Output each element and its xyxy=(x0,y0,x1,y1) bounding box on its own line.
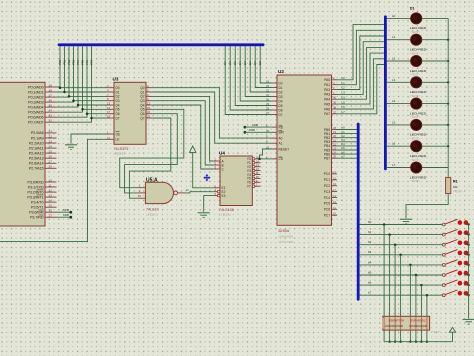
svg-text:U3: U3 xyxy=(113,77,119,82)
wire U5:A output pin12 to U4 E2 xyxy=(185,188,214,193)
svg-text:VCC=VDD: VCC=VDD xyxy=(279,240,295,244)
svg-text:16: 16 xyxy=(49,209,53,213)
wire Q5 to U5:A pin1 xyxy=(120,109,184,187)
svg-text:PC3: PC3 xyxy=(324,190,330,194)
push button row b3 xyxy=(360,250,470,257)
svg-text:39: 39 xyxy=(49,83,53,87)
svg-text:PC4: PC4 xyxy=(324,196,330,200)
svg-text:18: 18 xyxy=(107,115,111,119)
svg-text:L7: L7 xyxy=(342,110,346,114)
U1 port P3 pins xyxy=(27,178,56,219)
svg-text:L0: L0 xyxy=(392,14,396,18)
wires P0.0-P0.7 to U3 D0-D7 xyxy=(57,87,107,122)
svg-text:Q1: Q1 xyxy=(140,90,144,94)
wire U2 RESET to node xyxy=(258,149,272,160)
svg-text:L2: L2 xyxy=(342,86,346,90)
svg-text:33: 33 xyxy=(266,84,270,88)
push button row b2 xyxy=(360,240,470,247)
svg-text:D2: D2 xyxy=(248,61,252,65)
svg-text:14: 14 xyxy=(333,170,337,174)
wire Q1 to U2 A1 xyxy=(152,92,271,143)
svg-text:38: 38 xyxy=(49,88,53,92)
resistor R1 xyxy=(446,178,464,194)
svg-text:17: 17 xyxy=(333,188,337,192)
svg-text:13: 13 xyxy=(138,194,142,198)
svg-text:26: 26 xyxy=(49,155,53,159)
wire Q0 to U2 A0 xyxy=(152,88,271,138)
svg-text:D3: D3 xyxy=(243,61,247,65)
push button row b5 xyxy=(360,270,470,277)
microcontroller U1 body (AT89C51, clipped at left edge) xyxy=(0,82,45,226)
svg-text:LE: LE xyxy=(116,138,120,142)
svg-text:23: 23 xyxy=(49,139,53,143)
svg-text:L4: L4 xyxy=(342,95,346,99)
svg-text:16: 16 xyxy=(333,182,337,186)
svg-text:11: 11 xyxy=(333,206,336,210)
svg-text:15: 15 xyxy=(49,204,53,208)
pull-up wire b5 to resistor pack xyxy=(415,274,418,317)
svg-text:L6: L6 xyxy=(342,105,346,109)
svg-text:<TEXT>: <TEXT> xyxy=(410,179,421,183)
svg-text:36: 36 xyxy=(49,98,53,102)
svg-text:25: 25 xyxy=(49,149,53,153)
svg-text:P07: P07 xyxy=(90,59,94,65)
svg-text:D1: D1 xyxy=(253,61,257,65)
svg-text:32: 32 xyxy=(266,89,270,93)
svg-text:D5: D5 xyxy=(279,104,283,108)
svg-text:19: 19 xyxy=(147,115,151,119)
push button row b7 xyxy=(360,290,470,297)
svg-text:PA4: PA4 xyxy=(324,98,330,102)
svg-text:L5: L5 xyxy=(342,100,346,104)
svg-text:ARD: ARD xyxy=(63,213,69,217)
svg-text:10: 10 xyxy=(49,178,53,182)
wire Q2 to U4 A xyxy=(152,96,214,161)
bus entry labels P00-P07 xyxy=(58,59,94,65)
wire ALE to U3 LE xyxy=(0,139,106,241)
svg-text:PA2: PA2 xyxy=(324,88,330,92)
svg-text:L3: L3 xyxy=(392,78,396,82)
svg-text:D7: D7 xyxy=(279,113,283,117)
pull-up wire b2 to resistor pack xyxy=(394,243,397,316)
LED D3 (LED-RED) xyxy=(387,55,450,76)
svg-text:D5: D5 xyxy=(116,108,120,112)
svg-text:Q7: Q7 xyxy=(140,116,144,120)
svg-text:P03: P03 xyxy=(72,59,76,65)
pull-up wire b1 to resistor pack xyxy=(388,233,391,316)
wire LED cathode rail xyxy=(447,19,449,178)
pull-up wire b3 to resistor pack xyxy=(399,254,402,317)
svg-text:13: 13 xyxy=(49,193,53,197)
svg-text:L1: L1 xyxy=(342,81,346,85)
svg-text:A1: A1 xyxy=(279,142,283,146)
svg-text:D5: D5 xyxy=(233,61,237,65)
svg-text:31: 31 xyxy=(266,93,270,97)
svg-text:P00: P00 xyxy=(58,59,62,65)
svg-text:<TEXT>: <TEXT> xyxy=(219,213,231,217)
svg-text:D7: D7 xyxy=(116,116,120,120)
ground at U4 E3 xyxy=(198,196,214,218)
svg-text:<TEXT>: <TEXT> xyxy=(146,213,158,217)
wire U4 Y0 to U2 CS xyxy=(261,158,272,160)
svg-text:<TEXT>: <TEXT> xyxy=(410,30,421,34)
svg-text:74LS138: 74LS138 xyxy=(219,208,234,212)
svg-text:D0: D0 xyxy=(279,81,283,85)
junction dots on P0 wires xyxy=(59,86,93,119)
svg-text:L0: L0 xyxy=(342,76,346,80)
svg-text:b5: b5 xyxy=(368,270,372,274)
svg-text:PB7: PB7 xyxy=(324,157,330,161)
bus buttons (vertical lower) xyxy=(357,124,360,299)
svg-text:b6: b6 xyxy=(368,281,372,285)
svg-text:P02: P02 xyxy=(67,59,71,65)
svg-text:37: 37 xyxy=(49,93,53,97)
svg-text:<TEXT>: <TEXT> xyxy=(114,152,126,156)
svg-text:<TEXT>: <TEXT> xyxy=(410,94,421,98)
svg-text:14: 14 xyxy=(107,106,111,110)
svg-text:11: 11 xyxy=(49,183,52,187)
svg-text:A0: A0 xyxy=(279,136,283,140)
LED D5 (LED-RED) xyxy=(387,98,450,119)
LED D7 (LED-RED) xyxy=(387,141,450,162)
svg-text:PC7: PC7 xyxy=(324,214,330,218)
svg-text:40: 40 xyxy=(333,96,337,100)
svg-text:R9R8R7R6: R9R8R7R6 xyxy=(389,319,405,323)
svg-text:33: 33 xyxy=(49,114,53,118)
svg-text:b1: b1 xyxy=(368,230,372,234)
svg-text:L1: L1 xyxy=(392,35,396,39)
svg-text:100100100100: 100100100100 xyxy=(385,324,404,328)
svg-text:L3: L3 xyxy=(342,91,346,95)
svg-text:10: 10 xyxy=(333,212,337,216)
svg-text:<TEXT>: <TEXT> xyxy=(410,115,421,119)
svg-text:12: 12 xyxy=(186,188,190,192)
svg-text:39: 39 xyxy=(333,101,337,105)
svg-text:<TEXT>: <TEXT> xyxy=(410,137,421,141)
bus entry labels D0-D7 xyxy=(223,61,262,65)
svg-text:CS: CS xyxy=(279,157,283,161)
svg-text:RESET: RESET xyxy=(279,147,290,151)
resistor pack R2 (RESPACK-8) xyxy=(382,316,441,334)
svg-text:PC6: PC6 xyxy=(324,208,330,212)
svg-text:30: 30 xyxy=(266,98,270,102)
svg-text:P0.7/AD7: P0.7/AD7 xyxy=(28,120,43,125)
svg-text:34: 34 xyxy=(266,80,270,84)
push button row b6 xyxy=(360,280,470,287)
wire Q7 to U5:A pin13 xyxy=(129,118,170,198)
svg-text:P01: P01 xyxy=(63,59,67,65)
svg-text:15: 15 xyxy=(147,106,151,110)
svg-text:12: 12 xyxy=(333,200,337,204)
svg-text:b0: b0 xyxy=(368,220,372,224)
svg-text:37: 37 xyxy=(333,110,337,114)
svg-text:U2: U2 xyxy=(278,69,284,74)
svg-text:17: 17 xyxy=(49,214,53,218)
svg-text:<TEXT>: <TEXT> xyxy=(410,51,421,55)
svg-text:OE: OE xyxy=(116,132,121,136)
svg-text:D1: D1 xyxy=(279,86,283,90)
pull-up wire b6 to resistor pack xyxy=(420,284,423,316)
wire Q4 to U4 C xyxy=(152,105,214,169)
net label wires AWR/ARD at U1 xyxy=(57,208,73,219)
ground at buttons xyxy=(463,319,474,324)
LED D6 (LED-RED) xyxy=(387,119,450,140)
svg-text:21: 21 xyxy=(49,129,53,133)
svg-text:RD: RD xyxy=(279,125,284,129)
svg-text:U5:A: U5:A xyxy=(146,177,158,183)
svg-text:34: 34 xyxy=(49,109,53,113)
wire Q3 to U4 B xyxy=(152,101,214,165)
ground below R1 xyxy=(400,194,448,224)
svg-text:D6: D6 xyxy=(279,108,283,112)
svg-text:P05: P05 xyxy=(81,59,85,65)
pull-up wire b7 to resistor pack xyxy=(426,294,429,316)
svg-text:D3: D3 xyxy=(279,95,283,99)
svg-text:L2: L2 xyxy=(392,57,396,61)
svg-text:<TEXT>: <TEXT> xyxy=(431,330,442,334)
pull-up wire b4 to resistor pack xyxy=(409,264,412,317)
bus LED (vertical right) xyxy=(384,17,387,169)
svg-text:PC5: PC5 xyxy=(324,202,330,206)
resistor pack pins to VCC rail xyxy=(384,330,428,343)
svg-text:b2: b2 xyxy=(368,240,372,244)
svg-text:27: 27 xyxy=(49,160,53,164)
svg-text:35: 35 xyxy=(49,103,53,107)
pull-up wire b0 to resistor pack xyxy=(383,223,386,316)
bus P0 (horizontal top) xyxy=(59,43,263,46)
bus entry drops to U2 D0-D7 xyxy=(225,46,272,114)
svg-text:13: 13 xyxy=(333,194,337,198)
svg-text:D2: D2 xyxy=(279,90,283,94)
ground at U3 OE xyxy=(65,134,106,150)
LED D8 (LED-RED) xyxy=(387,162,449,183)
net label wires ARD/AWR at U2 xyxy=(244,123,272,134)
svg-text:29: 29 xyxy=(266,102,270,106)
wires PA0-PA7 to LED bus with labels L0-L7 xyxy=(337,25,384,114)
svg-text:12: 12 xyxy=(49,188,53,192)
svg-text:38: 38 xyxy=(333,106,337,110)
NAND gate U5:A (74LS10) xyxy=(138,177,185,217)
svg-text:PA3: PA3 xyxy=(324,93,330,97)
svg-text:D1: D1 xyxy=(116,90,120,94)
svg-text:D7: D7 xyxy=(223,61,227,65)
origin marker (blue cross) xyxy=(203,174,210,182)
svg-text:PC1: PC1 xyxy=(324,178,330,182)
power symbol to U4 E1 xyxy=(190,146,214,188)
svg-text:28: 28 xyxy=(266,107,270,111)
svg-text:PA7: PA7 xyxy=(324,112,330,116)
svg-text:GND=VSS: GND=VSS xyxy=(279,235,294,239)
svg-text:15: 15 xyxy=(333,176,337,180)
push button row b4 xyxy=(360,260,470,267)
svg-text:PC0: PC0 xyxy=(324,172,330,176)
svg-text:74LS10: 74LS10 xyxy=(146,208,159,212)
svg-text:74LS373: 74LS373 xyxy=(114,147,129,151)
svg-text:L5: L5 xyxy=(392,120,396,124)
svg-text:L7: L7 xyxy=(392,163,396,167)
LED D4 (LED-RED) xyxy=(387,77,450,98)
svg-text:PA5: PA5 xyxy=(324,102,330,106)
wire button common rail xyxy=(468,225,470,319)
svg-text:b3: b3 xyxy=(368,250,372,254)
latch U3 74LS373 xyxy=(106,77,152,156)
svg-text:D0: D0 xyxy=(258,61,262,65)
svg-text:22: 22 xyxy=(49,134,53,138)
svg-text:35: 35 xyxy=(266,146,270,150)
svg-text:WR: WR xyxy=(279,131,285,135)
svg-text:14: 14 xyxy=(49,198,53,202)
wire Q6 to U5:A pin2 xyxy=(125,114,178,193)
svg-text:27: 27 xyxy=(266,111,270,115)
svg-text:11: 11 xyxy=(107,136,110,140)
svg-text:P2.7/A15: P2.7/A15 xyxy=(29,166,44,171)
push button row b0 xyxy=(360,219,470,226)
label D1 xyxy=(410,6,415,10)
svg-text:b4: b4 xyxy=(368,260,372,264)
svg-text:PA0: PA0 xyxy=(324,78,330,82)
svg-text:PC2: PC2 xyxy=(324,184,330,188)
svg-text:8255A: 8255A xyxy=(279,229,290,233)
svg-text:D4: D4 xyxy=(279,99,283,103)
svg-text:Y7: Y7 xyxy=(247,185,251,189)
svg-text:AWR: AWR xyxy=(249,128,256,132)
svg-text:L6: L6 xyxy=(392,142,396,146)
svg-text:U4: U4 xyxy=(219,151,225,156)
svg-text:R5R4R3R2: R5R4R3R2 xyxy=(410,319,426,323)
bus entry drops to U3 (P00-P07) xyxy=(60,46,92,118)
svg-text:E3: E3 xyxy=(222,194,226,198)
LED D2 (LED-RED) xyxy=(387,34,450,55)
svg-text:AWR: AWR xyxy=(62,208,69,212)
svg-text:ARD: ARD xyxy=(252,123,258,127)
PPI U2 8255A xyxy=(266,69,337,244)
svg-text:28: 28 xyxy=(49,165,53,169)
svg-text:10k: 10k xyxy=(453,185,458,189)
svg-text:24: 24 xyxy=(49,144,53,148)
svg-text:P06: P06 xyxy=(85,59,89,65)
svg-text:<TEXT>: <TEXT> xyxy=(453,190,464,194)
svg-text:32: 32 xyxy=(49,119,53,123)
svg-text:b7: b7 xyxy=(368,291,372,295)
svg-text:R1: R1 xyxy=(453,179,458,183)
svg-text:PA6: PA6 xyxy=(324,107,330,111)
svg-text:P04: P04 xyxy=(76,59,80,65)
svg-text:L4: L4 xyxy=(392,99,396,103)
U1 port P0 pins xyxy=(28,83,56,124)
push button row b1 xyxy=(360,229,470,236)
svg-text:D1: D1 xyxy=(410,6,415,10)
decoder U4 74LS138 xyxy=(214,151,261,217)
svg-text:D4: D4 xyxy=(238,61,242,65)
svg-text:D6: D6 xyxy=(228,61,232,65)
VCC power symbol at resistor pack xyxy=(384,327,456,341)
wires PB0-PB7 to button bus with labels b0-b7 xyxy=(337,126,357,159)
svg-text:<TEXT>: <TEXT> xyxy=(410,158,421,162)
LED D1 (LED-RED) xyxy=(387,13,449,34)
svg-text:PA1: PA1 xyxy=(324,83,330,87)
svg-text:25: 25 xyxy=(333,155,337,159)
svg-text:Q5: Q5 xyxy=(140,108,144,112)
svg-text:100100100100: 100100100100 xyxy=(409,324,428,328)
U1 port P2 pins xyxy=(29,129,57,170)
svg-text:<TEXT>: <TEXT> xyxy=(410,73,421,77)
svg-text:b7: b7 xyxy=(342,154,346,158)
